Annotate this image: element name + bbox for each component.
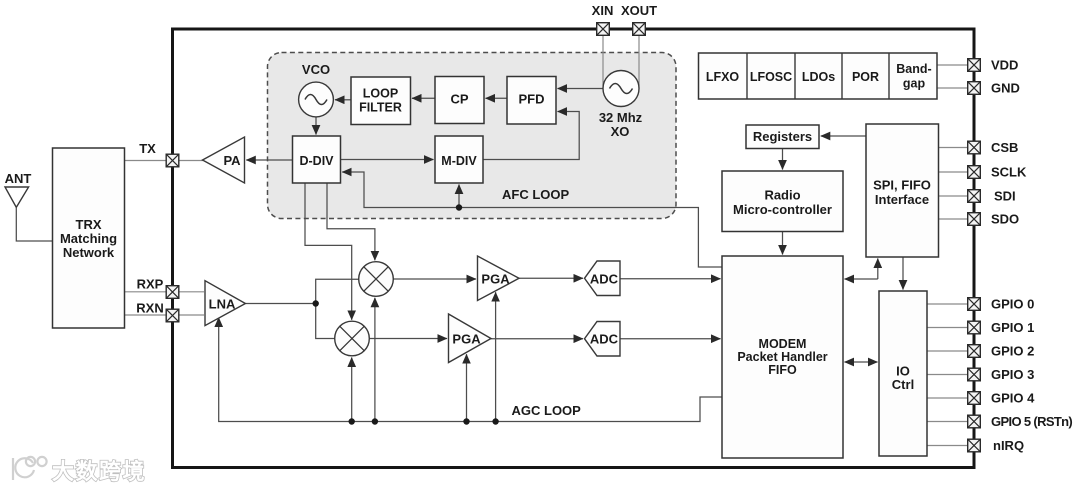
wire band-gap to VDD pin [937,64,974,66]
pin nIRQ [968,438,1024,453]
amplifier PA [203,137,245,183]
wire D-DIV LO to bottom mixer [305,183,352,320]
wire LNA output to mixers split [245,279,358,338]
svg-text:Registers: Registers [753,129,812,144]
wire bottom mixer to PGA [369,338,447,340]
amplifier LNA [205,281,245,326]
svg-text:FIFO: FIFO [768,363,797,377]
svg-text:Interface: Interface [875,192,929,207]
block power row LFXO LFOSC LDOs POR Band-gap [699,53,938,99]
wire PFD to CP [486,97,508,99]
svg-text:AFC LOOP: AFC LOOP [502,187,569,202]
svg-text:nIRQ: nIRQ [993,438,1024,453]
wire SPI to SDO pin [939,218,975,220]
svg-text:PGA: PGA [481,271,510,286]
converter ADC top [585,261,621,296]
svg-text:Network: Network [63,245,115,260]
pin SCLK [968,165,1027,180]
svg-text:SCLK: SCLK [991,165,1027,180]
wire AGC loop from MODEM to LNA [219,318,722,422]
wire top PGA to ADC [519,277,583,279]
wire AFC loop from MODEM to D-DIV [342,172,722,267]
wire XO to PFD [558,88,605,90]
svg-text:GPIO 0: GPIO 0 [991,297,1034,312]
pin SDO [968,212,1019,227]
converter ADC bottom [585,322,621,357]
svg-text:PA: PA [223,153,241,168]
svg-text:TX: TX [139,141,156,156]
block M-DIV [435,136,483,183]
svg-text:GPIO 1: GPIO 1 [991,320,1034,335]
svg-text:32 Mhz: 32 Mhz [599,110,643,125]
wire AGC to bottom mixer [351,358,353,422]
svg-text:TRX: TRX [76,217,102,232]
svg-text:XOUT: XOUT [621,3,657,18]
oscillator VCO [299,62,334,117]
svg-text:SDI: SDI [994,189,1016,204]
watermark logo [13,457,47,480]
block LOOP FILTER [351,77,411,125]
junction AGC top PGA [492,418,498,424]
wire MODEM to IO Ctrl bidirectional [845,361,878,363]
pin VDD [968,58,1019,73]
wire TRX to RXN pin to LNA [125,314,205,316]
svg-text:VDD: VDD [991,58,1018,73]
wire top mixer to PGA [393,278,476,280]
wire IO Ctrl to GPIO 3 pin [927,374,974,376]
pin RXP [137,277,179,299]
block CP [435,77,484,124]
wire AFC branch to M-DIV [458,185,460,208]
junction AGC bottom mixer [349,418,355,424]
wire IO Ctrl to GPIO 4 pin [927,397,974,399]
svg-text:VCO: VCO [302,62,330,77]
wire Radio MCU to MODEM [782,232,784,255]
svg-text:GPIO 5 (RSTn): GPIO 5 (RSTn) [991,414,1072,429]
svg-text:POR: POR [852,70,879,84]
svg-text:M-DIV: M-DIV [441,154,477,168]
wire IO Ctrl to GPIO 1 pin [927,327,974,329]
svg-text:LOOP: LOOP [363,87,398,101]
pin RXN [136,301,179,322]
block Radio Micro-controller [722,171,843,232]
wire D-DIV LO to top mixer [327,183,375,260]
svg-text:SPI, FIFO: SPI, FIFO [873,178,931,193]
wire AGC to top mixer [374,298,376,422]
svg-text:GND: GND [991,81,1020,96]
svg-text:LDOs: LDOs [802,70,835,84]
pin GND [968,81,1020,96]
chip boundary [173,29,975,468]
svg-text:Packet Handler: Packet Handler [737,350,827,364]
wire SPI to SCLK pin [939,171,975,173]
wire SPI to CSB pin [939,147,975,149]
svg-text:Micro-controller: Micro-controller [733,202,832,217]
svg-text:XIN: XIN [592,3,614,18]
svg-text:PGA: PGA [452,332,481,347]
pin SDI [968,189,1016,204]
svg-text:Radio: Radio [764,188,800,203]
svg-text:Band-: Band- [896,62,931,76]
pin TX [139,141,179,167]
wire AGC to bottom PGA [466,354,468,421]
wire XOUT to XO [638,35,640,89]
wire SPI to IO Ctrl [902,257,904,290]
junction AGC bottom PGA [463,418,469,424]
wire Registers to Radio MCU [782,149,784,170]
svg-text:RXP: RXP [137,277,164,292]
wire VCO to D-DIV [315,117,317,135]
svg-text:ADC: ADC [590,271,619,286]
junction AFC / M-DIV [456,204,462,210]
svg-text:GPIO 4: GPIO 4 [991,391,1035,406]
wire IO Ctrl to GPIO 2 pin [927,350,974,352]
svg-text:大数跨境: 大数跨境 [52,459,146,484]
pin CSB [968,140,1019,155]
svg-text:ADC: ADC [590,332,619,347]
block MODEM Packet Handler FIFO [722,256,843,458]
svg-text:GPIO 2: GPIO 2 [991,344,1034,359]
wire D-DIV to PA [246,159,292,161]
block D-DIV [293,136,341,183]
wire bottom PGA to ADC [491,338,583,340]
wire TRX to TX pin to PA [125,160,204,162]
synthesizer AFC loop region (gray dashed rounded box) [268,53,677,219]
pin XIN [592,3,614,35]
svg-text:gap: gap [903,77,926,91]
wire IO Ctrl to nIRQ pin [927,445,974,447]
wire band-gap to GND pin [937,87,974,89]
pin GPIO 2 [968,344,1035,359]
block TRX Matching Network [53,148,125,328]
svg-text:LFOSC: LFOSC [750,70,792,84]
amplifier PGA bottom [449,314,492,363]
svg-text:MODEM: MODEM [759,337,807,351]
svg-text:ANT: ANT [5,171,32,186]
wire AGC to top PGA [495,292,497,421]
svg-text:XO: XO [611,124,630,139]
wire top ADC to MODEM [620,278,721,280]
oscillator 32 Mhz XO [599,71,643,140]
pin XOUT [621,3,657,35]
pin GPIO 4 [968,391,1035,406]
wire XIN to XO [602,35,604,89]
pin GPIO 5 [968,414,1073,429]
pin GPIO 3 [968,367,1035,382]
wire M-DIV feedback to PFD [483,112,579,160]
amplifier PGA top [478,256,520,301]
junction AGC top mixer [372,418,378,424]
svg-text:PFD: PFD [519,92,545,107]
wire SPI to Registers [821,135,866,137]
svg-text:GPIO 3: GPIO 3 [991,367,1034,382]
wire SPI to MODEM bidirectional [877,259,879,280]
block Registers [746,125,819,149]
pin GPIO 0 [968,297,1035,312]
antenna ANT [5,171,53,241]
wire IO Ctrl to GPIO 5 pin [927,421,974,423]
wire D-DIV to M-DIV [341,159,434,161]
svg-text:LFXO: LFXO [706,70,740,84]
wire bottom ADC to MODEM [620,338,721,340]
wire LOOP FILTER to VCO [335,99,351,101]
block SPI FIFO Interface [866,124,939,257]
svg-text:AGC LOOP: AGC LOOP [512,403,582,418]
svg-text:SDO: SDO [991,212,1019,227]
junction LNA output [313,300,319,306]
svg-text:D-DIV: D-DIV [299,154,334,168]
svg-text:FILTER: FILTER [359,101,402,115]
wire TRX to RXP pin to LNA [125,291,205,293]
svg-text:RXN: RXN [136,301,163,316]
wire CP to LOOP FILTER [412,97,435,99]
svg-text:CP: CP [450,92,468,107]
svg-text:CSB: CSB [991,140,1018,155]
wire SPI to SDI pin [939,195,975,197]
block IO Ctrl [879,291,927,456]
mixer bottom (Q) [335,321,370,356]
svg-text:Ctrl: Ctrl [892,377,914,392]
svg-text:Matching: Matching [60,231,117,246]
block PFD [507,77,556,125]
mixer top (I) [359,262,394,297]
wire IO Ctrl to GPIO 0 pin [927,303,974,305]
pin GPIO 1 [968,320,1035,335]
svg-text:LNA: LNA [209,296,236,311]
